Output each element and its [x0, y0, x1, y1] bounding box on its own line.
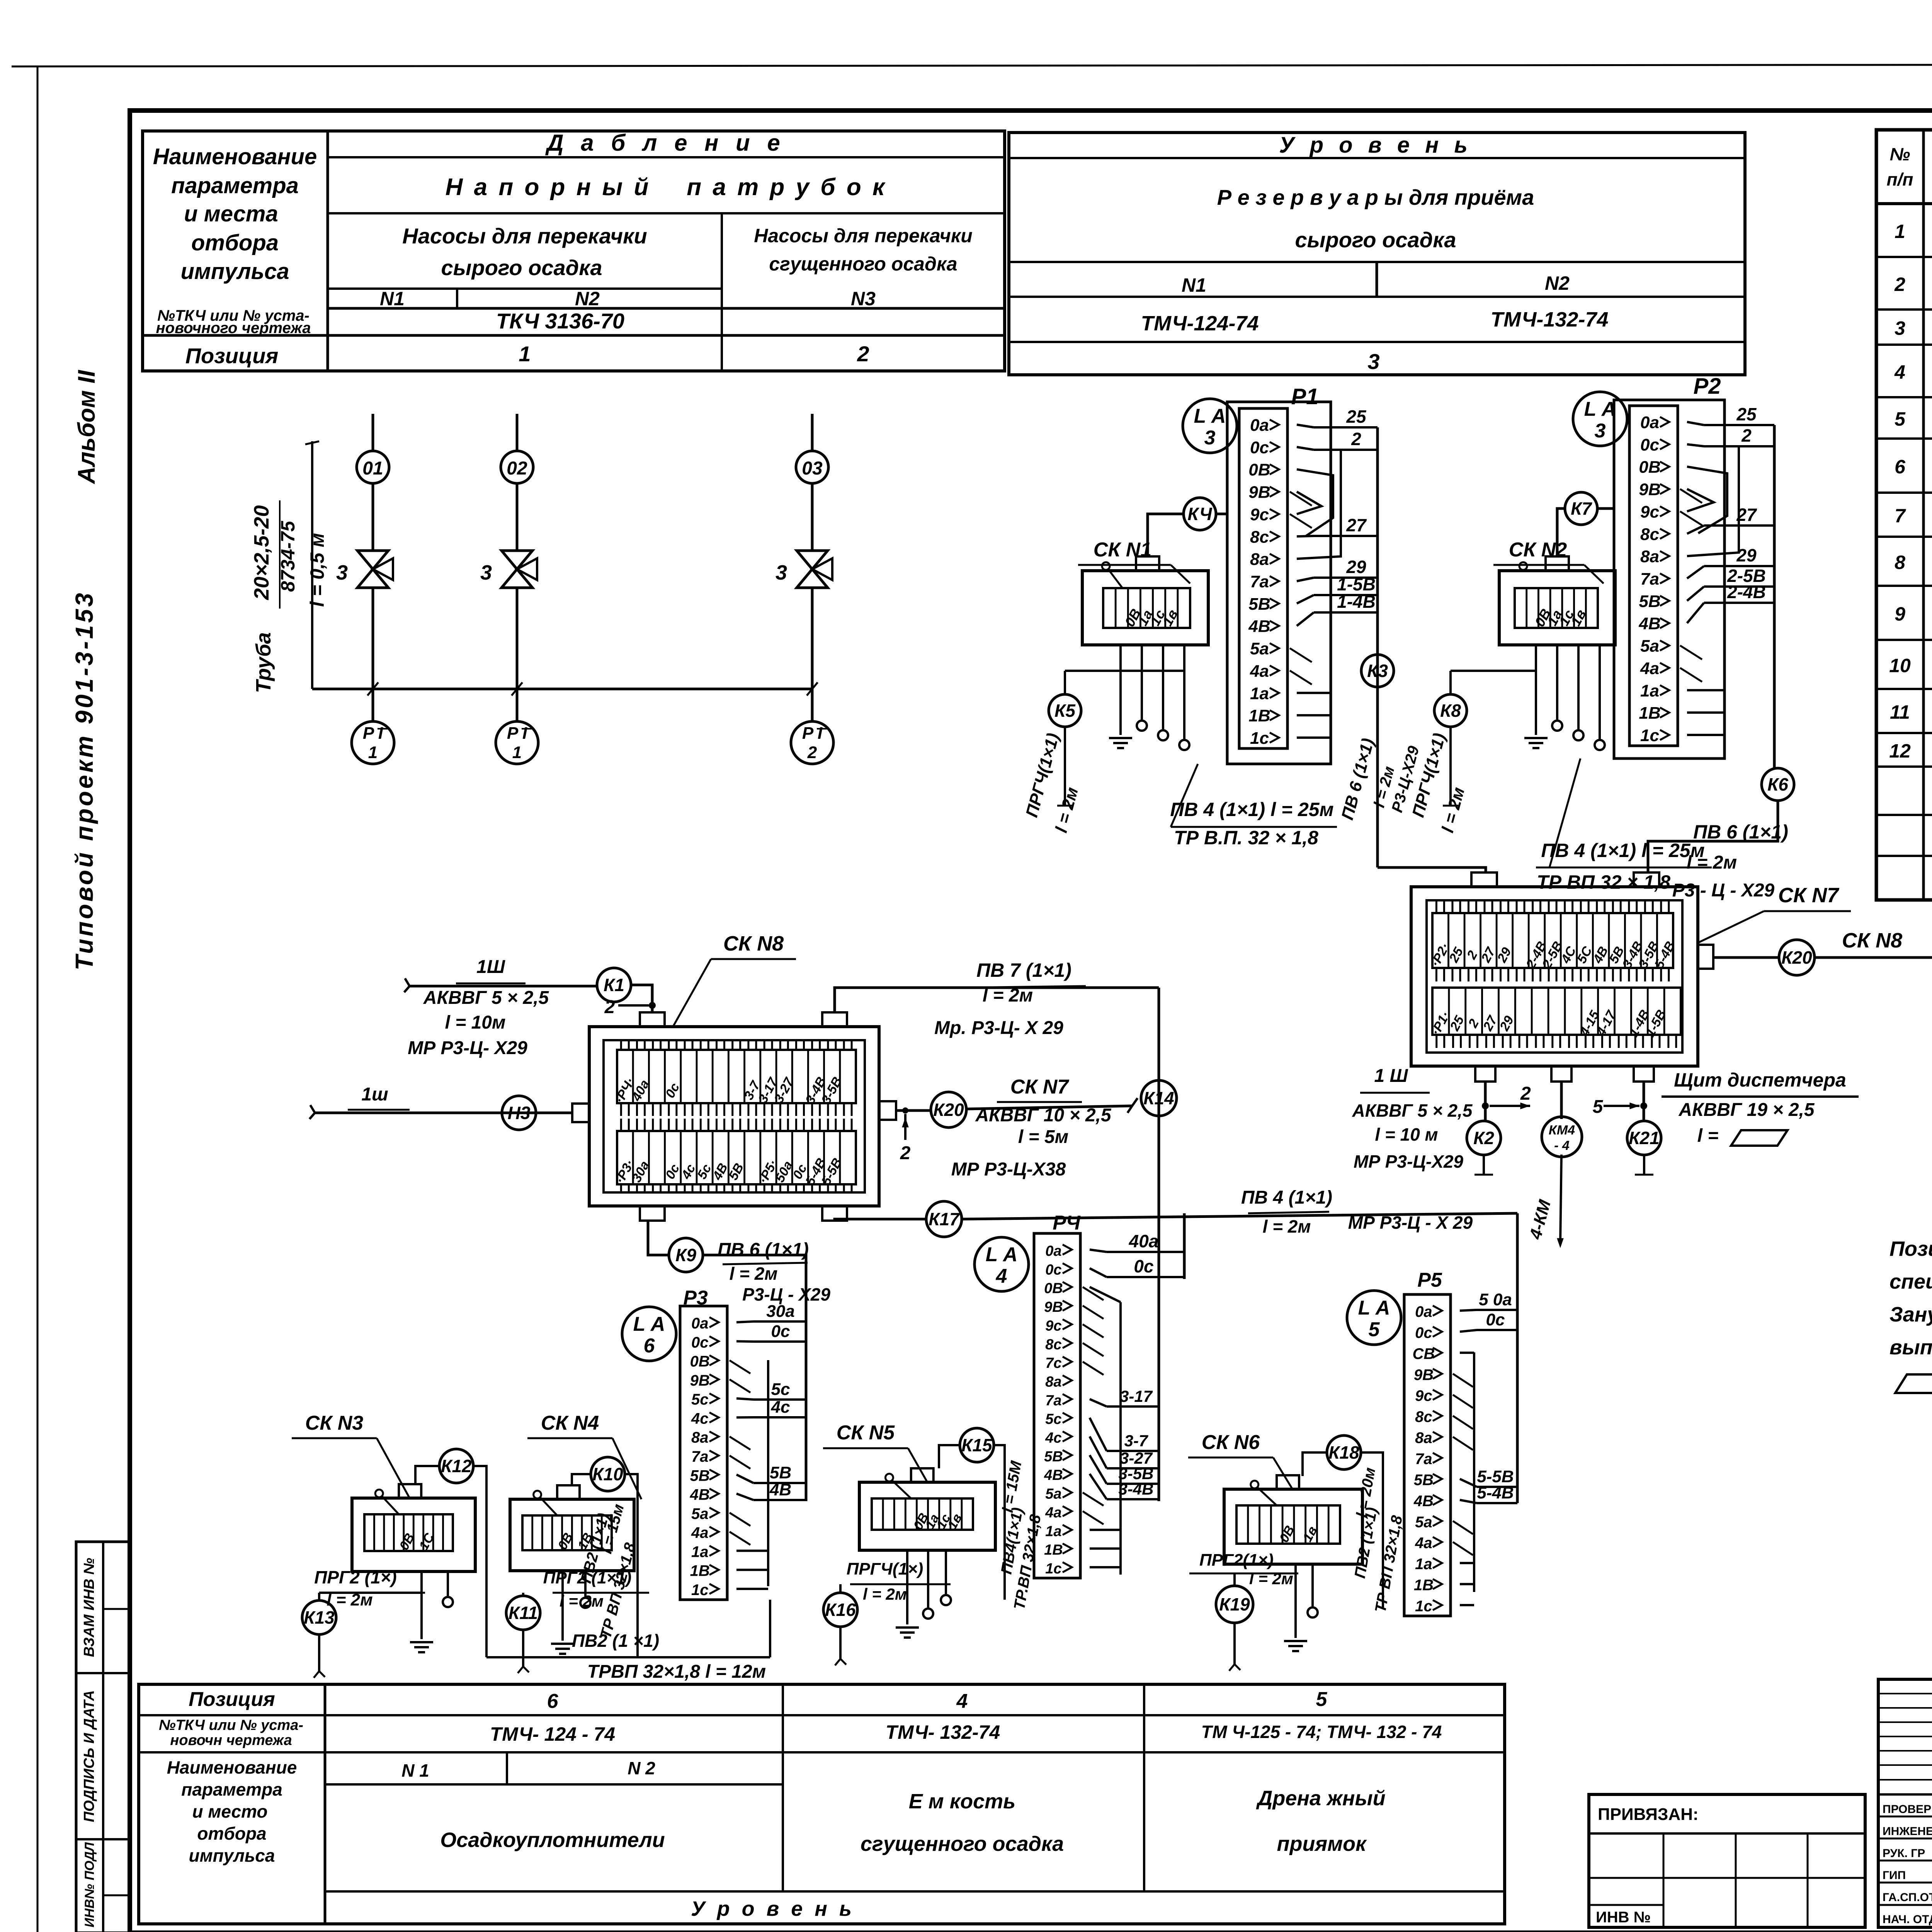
- P1 terminal strip: [1239, 408, 1287, 748]
- svg-text:8а: 8а: [1415, 1430, 1432, 1447]
- svg-text:ПРИВЯЗАН:: ПРИВЯЗАН:: [1598, 1805, 1699, 1824]
- svg-text:1ш: 1ш: [361, 1084, 388, 1105]
- svg-text:4: 4: [956, 1690, 968, 1713]
- wire K9 from CK N8 bottom: [648, 1221, 669, 1255]
- svg-text:11: 11: [1890, 701, 1910, 723]
- svg-text:1а: 1а: [691, 1543, 709, 1560]
- svg-text:12: 12: [1889, 740, 1911, 762]
- svg-text:P I: P I: [802, 724, 823, 743]
- wire P1 bus to CK N7: [1378, 867, 1486, 872]
- CK N8 strip teeth: [620, 1040, 622, 1050]
- junction circle K6: [1762, 768, 1794, 801]
- svg-text:1В: 1В: [1044, 1542, 1063, 1558]
- svg-text:6: 6: [1895, 456, 1906, 478]
- svg-text:Осадкоуплотнители: Осадкоуплотнители: [440, 1828, 665, 1852]
- svg-text:ТКЧ 3136-70: ТКЧ 3136-70: [496, 309, 624, 333]
- junction circle K19: [1216, 1586, 1253, 1623]
- svg-text:параметра: параметра: [171, 173, 299, 198]
- svg-text:0В: 0В: [1248, 461, 1270, 480]
- wire 1sh to K1 into CK N8: [410, 985, 597, 988]
- svg-text:01: 01: [362, 458, 383, 479]
- svg-text:ПРГ2(1×): ПРГ2(1×): [1199, 1551, 1274, 1570]
- svg-text:К3: К3: [1367, 661, 1388, 681]
- connection box CK N8 outer: [589, 1027, 879, 1206]
- CK N6 bottom wires: [1294, 1564, 1297, 1638]
- svg-text:ГА.СП.ОТД: ГА.СП.ОТД: [1883, 1891, 1932, 1904]
- svg-text:ВЗАМ ИНВ №: ВЗАМ ИНВ №: [81, 1558, 97, 1657]
- P3 right bus: [805, 1255, 808, 1501]
- svg-text:РЧ: РЧ: [1053, 1212, 1081, 1234]
- svg-text:0с: 0с: [1045, 1262, 1061, 1278]
- svg-text:сырого осадка: сырого осадка: [1295, 228, 1456, 252]
- svg-text:2: 2: [900, 1143, 911, 1163]
- svg-text:0а: 0а: [1415, 1303, 1432, 1320]
- svg-text:9В: 9В: [1044, 1299, 1063, 1315]
- svg-text:К7: К7: [1571, 498, 1592, 519]
- svg-text:8а: 8а: [1045, 1374, 1061, 1390]
- svg-text:l = 2м: l = 2м: [730, 1264, 778, 1284]
- svg-text:СК N7: СК N7: [1010, 1076, 1070, 1098]
- svg-text:5а: 5а: [1415, 1514, 1432, 1531]
- three-way valve 2: [502, 551, 532, 588]
- svg-text:ПВ2 (1 ×1): ПВ2 (1 ×1): [572, 1631, 659, 1651]
- svg-text:ПВ 4 (1×1) l = 25м: ПВ 4 (1×1) l = 25м: [1541, 840, 1704, 861]
- table level header: [1009, 133, 1745, 375]
- P3 terminal zigzags: [730, 1361, 750, 1374]
- svg-text:5а: 5а: [691, 1505, 709, 1522]
- wire CK N7 down to KM4: [1560, 1082, 1563, 1119]
- svg-text:2: 2: [1741, 425, 1752, 446]
- svg-text:ТМЧ- 124 - 74: ТМЧ- 124 - 74: [490, 1723, 615, 1745]
- svg-text:5-4В: 5-4В: [1477, 1483, 1514, 1502]
- svg-text:МР Р3-Ц- Х29: МР Р3-Ц- Х29: [408, 1038, 527, 1058]
- svg-text:2: 2: [1894, 274, 1905, 295]
- P4 terminal strip: [1034, 1233, 1080, 1578]
- svg-text:l =: l =: [1697, 1126, 1719, 1146]
- svg-text:Р2: Р2: [1694, 374, 1721, 399]
- P4 wires lower: [1090, 1399, 1107, 1406]
- margin stamp table: [76, 1542, 130, 1932]
- connection box CK N7 outer: [1411, 887, 1698, 1066]
- svg-text:АКВВГ 10 × 2,5: АКВВГ 10 × 2,5: [975, 1105, 1111, 1126]
- svg-text:L А: L А: [633, 1313, 665, 1335]
- wire PV7 from CK N8 top to K14 bus: [835, 988, 1159, 1012]
- P3 inner bus: [767, 1360, 769, 1586]
- svg-text:4В: 4В: [1413, 1493, 1434, 1510]
- svg-text:9с: 9с: [1045, 1318, 1061, 1334]
- svg-text:30а: 30а: [766, 1302, 794, 1321]
- svg-text:8с: 8с: [1640, 525, 1659, 544]
- wire K17 line: [835, 1219, 926, 1221]
- svg-text:СК N1: СК N1: [1094, 539, 1151, 561]
- pressure gauge circle: [791, 721, 833, 764]
- CK N8 right stubs: [879, 1101, 896, 1120]
- svg-text:АКВВГ 5 × 2,5: АКВВГ 5 × 2,5: [423, 988, 549, 1008]
- svg-text:Насосы для перекачки: Насосы для перекачки: [754, 225, 973, 247]
- svg-text:P I: P I: [363, 724, 383, 743]
- svg-text:40а: 40а: [1129, 1231, 1159, 1251]
- junction circle K3: [1361, 655, 1394, 687]
- svg-text:Альбом II: Альбом II: [73, 369, 100, 485]
- svg-text:8с: 8с: [1250, 527, 1269, 546]
- svg-text:К16: К16: [825, 1600, 856, 1620]
- svg-text:1В: 1В: [1248, 706, 1270, 725]
- svg-text:7с: 7с: [1045, 1355, 1061, 1371]
- svg-text:0с: 0с: [1640, 435, 1659, 454]
- junction circle K13: [302, 1600, 336, 1634]
- junction circle K12: [439, 1449, 473, 1483]
- svg-text:Р1: Р1: [1291, 384, 1319, 409]
- junction slash: [807, 682, 818, 696]
- svg-text:25: 25: [1346, 406, 1367, 427]
- svg-text:5с: 5с: [771, 1380, 790, 1399]
- wire CK N7 to K20 and CK N8 ref: [1713, 956, 1779, 959]
- svg-text:3: 3: [480, 561, 492, 584]
- P1 terminal zigzags: [1290, 492, 1312, 506]
- svg-text:4В: 4В: [1248, 617, 1270, 636]
- svg-text:импульса: импульса: [189, 1845, 275, 1866]
- svg-text:приямок: приямок: [1277, 1832, 1367, 1855]
- svg-text:5 0а: 5 0а: [1479, 1290, 1512, 1309]
- impulse bus line: [312, 688, 812, 690]
- connection box CK N3: [352, 1498, 475, 1571]
- P2 terminal strip: [1629, 406, 1678, 746]
- svg-text:1В: 1В: [1414, 1577, 1434, 1594]
- svg-text:СК N8: СК N8: [1842, 929, 1902, 952]
- svg-text:20×2,5-20: 20×2,5-20: [250, 505, 273, 600]
- svg-text:5с: 5с: [691, 1391, 709, 1408]
- svg-text:МР Р3-Ц - Х 29: МР Р3-Ц - Х 29: [1348, 1213, 1473, 1233]
- svg-text:СК N6: СК N6: [1202, 1431, 1260, 1454]
- svg-text:2: 2: [857, 342, 869, 366]
- bottom parameter table: [139, 1684, 1505, 1924]
- svg-text:К18: К18: [1328, 1442, 1359, 1463]
- svg-text:4а: 4а: [691, 1524, 709, 1541]
- svg-text:5В: 5В: [1248, 595, 1270, 614]
- svg-text:Р3-Ц - Х29: Р3-Ц - Х29: [742, 1284, 830, 1304]
- svg-text:№ТКЧ или № уста-: №ТКЧ или № уста-: [159, 1717, 303, 1733]
- svg-text:ТР ВП 32 × 1,8: ТР ВП 32 × 1,8: [1537, 871, 1670, 893]
- svg-text:параметра: параметра: [181, 1779, 282, 1799]
- svg-text:L А: L А: [986, 1243, 1018, 1266]
- svg-text:7а: 7а: [691, 1448, 709, 1465]
- instrument LA-5 circle: [1347, 1291, 1401, 1345]
- svg-text:ТМ Ч-125 - 74; ТМЧ- 132 - 74: ТМ Ч-125 - 74; ТМЧ- 132 - 74: [1201, 1722, 1442, 1742]
- svg-text:МР Р3-Ц-Х29: МР Р3-Ц-Х29: [1354, 1151, 1463, 1172]
- svg-text:N2: N2: [1545, 272, 1570, 294]
- svg-text:4а: 4а: [1250, 662, 1269, 680]
- svg-text:5а: 5а: [1640, 637, 1659, 656]
- junction circle K18: [1327, 1435, 1361, 1469]
- wire 1sh to H3 into CK N8: [315, 1112, 572, 1114]
- svg-text:Р е з е р в у а р ы для: Р е з е р в у а р ы для приёма: [1217, 185, 1534, 209]
- svg-text:К19: К19: [1219, 1594, 1250, 1614]
- svg-text:2: 2: [604, 997, 615, 1017]
- svg-text:N1: N1: [1182, 274, 1206, 296]
- connection box CK N1: [1082, 571, 1208, 645]
- P1 crossover wires: [1297, 469, 1333, 536]
- svg-text:К14: К14: [1143, 1088, 1174, 1108]
- pipe line branch 1: [372, 414, 374, 452]
- svg-text:Позиция: Позиция: [185, 344, 279, 368]
- svg-text:9В: 9В: [690, 1372, 710, 1389]
- CK N4 bottom wires: [561, 1571, 564, 1641]
- vertical bus to K14: [1158, 988, 1160, 1406]
- svg-text:Д а б л е н и е: Д а б л е н и е: [545, 130, 786, 156]
- svg-text:9с: 9с: [1640, 502, 1659, 521]
- title block attach box: [1589, 1794, 1865, 1927]
- svg-text:К6: К6: [1767, 774, 1788, 794]
- svg-text:К1: К1: [604, 975, 624, 995]
- svg-text:1В: 1В: [690, 1563, 710, 1580]
- svg-text:7а: 7а: [1640, 570, 1659, 588]
- P2 wires to bus: [1687, 422, 1704, 425]
- table pressure header: [143, 131, 1005, 371]
- svg-text:1Ш: 1Ш: [476, 957, 505, 977]
- svg-text:Типовой проект 901-3-153: Типовой проект 901-3-153: [70, 591, 98, 971]
- svg-text:l = 2м: l = 2м: [863, 1585, 907, 1603]
- wire valve to bus: [372, 588, 374, 689]
- CK N1 top stub: [1136, 556, 1159, 571]
- svg-text:4с: 4с: [1045, 1430, 1061, 1446]
- svg-text:1а: 1а: [1640, 681, 1659, 700]
- wire bus to gauge: [372, 689, 374, 722]
- svg-text:ТМЧ-124-74: ТМЧ-124-74: [1141, 312, 1259, 335]
- svg-text:5В: 5В: [690, 1467, 710, 1484]
- P5 wires: [1460, 1310, 1477, 1311]
- P4 terminal zigzags: [1083, 1287, 1104, 1300]
- svg-text:ПРГЧ(1×): ПРГЧ(1×): [847, 1560, 923, 1578]
- CK N2 bottom wires: [1535, 645, 1537, 735]
- svg-text:5а: 5а: [1250, 639, 1269, 658]
- CK N7 right stub: [1698, 945, 1713, 969]
- svg-text:6: 6: [547, 1690, 559, 1713]
- svg-text:1 Ш: 1 Ш: [1374, 1066, 1408, 1086]
- connection box CK N6: [1224, 1489, 1362, 1564]
- svg-text:8а: 8а: [1640, 547, 1659, 566]
- svg-text:9: 9: [1895, 603, 1905, 625]
- CK N3 bottom wires: [420, 1571, 423, 1639]
- svg-text:1с: 1с: [691, 1582, 709, 1599]
- svg-text:0В: 0В: [1044, 1281, 1063, 1297]
- svg-text:l = 5м: l = 5м: [1018, 1127, 1068, 1147]
- svg-text:К5: К5: [1054, 701, 1076, 721]
- specification table: [1876, 130, 1932, 900]
- svg-text:0с: 0с: [1415, 1324, 1432, 1341]
- svg-text:27: 27: [1346, 515, 1367, 535]
- junction circle K11: [506, 1596, 540, 1630]
- svg-text:МР Р3-Ц-Х38: МР Р3-Ц-Х38: [951, 1159, 1066, 1180]
- svg-text:выполнить согласно ПУЭ § 1-7: выполнить согласно ПУЭ § 1-7: [1889, 1336, 1932, 1359]
- svg-text:ПВ 4 (1×1) l = 25м: ПВ 4 (1×1) l = 25м: [1170, 799, 1333, 820]
- P5 right bus: [1516, 1213, 1519, 1503]
- svg-text:l = 2м: l = 2м: [1249, 1570, 1293, 1588]
- svg-text:Наименование: Наименование: [167, 1757, 297, 1777]
- P1 wires to bus: [1297, 425, 1314, 427]
- svg-text:8: 8: [1895, 552, 1905, 573]
- svg-text:1: 1: [1895, 221, 1905, 242]
- svg-text:КМ4: КМ4: [1549, 1123, 1575, 1138]
- wire K13 bracket: [319, 1592, 422, 1594]
- svg-text:СК N7: СК N7: [1778, 884, 1840, 907]
- svg-text:новочного чертежа: новочного чертежа: [156, 320, 311, 337]
- junction circle K16: [823, 1593, 857, 1627]
- junction circle K15: [960, 1428, 994, 1462]
- wire K6 to CK N7: [1648, 801, 1778, 872]
- svg-text:2: 2: [1520, 1083, 1531, 1104]
- svg-text:К13: К13: [304, 1607, 335, 1628]
- svg-text:10: 10: [1889, 655, 1911, 677]
- svg-text:Насосы для перекачки: Насосы для перекачки: [402, 224, 647, 248]
- svg-text:ТМЧ- 132-74: ТМЧ- 132-74: [886, 1721, 1000, 1743]
- svg-text:К2: К2: [1473, 1128, 1494, 1148]
- svg-text:4а: 4а: [1415, 1535, 1432, 1552]
- svg-text:1с: 1с: [1640, 726, 1659, 745]
- wire bottom run: [486, 1656, 770, 1658]
- svg-text:N2: N2: [575, 288, 600, 310]
- wire K5 link: [1065, 670, 1184, 672]
- three-way valve 3: [797, 551, 828, 588]
- svg-text:03: 03: [802, 458, 823, 479]
- P1 inner wires: [1297, 692, 1331, 694]
- svg-text:ПОДПИСЬ И ДАТА: ПОДПИСЬ И ДАТА: [81, 1690, 97, 1822]
- svg-text:0а: 0а: [691, 1315, 709, 1332]
- svg-text:6: 6: [644, 1335, 655, 1357]
- svg-text:У р о в е н ь: У р о в е н ь: [1279, 133, 1472, 158]
- svg-text:Зануление приборов и соедините: Зануление приборов и соединительных коро…: [1889, 1303, 1932, 1326]
- svg-text:1а: 1а: [1415, 1556, 1432, 1573]
- svg-text:l = 2м: l = 2м: [983, 985, 1033, 1006]
- CK N7 top terminal row: [1432, 913, 1673, 968]
- svg-text:К17: К17: [929, 1209, 960, 1229]
- CK N8 bottom stubs: [640, 1206, 665, 1221]
- svg-text:1а: 1а: [1045, 1523, 1061, 1539]
- CK N7 bottom stubs: [1475, 1066, 1495, 1082]
- svg-text:N1: N1: [380, 288, 405, 310]
- svg-text:3-7: 3-7: [1124, 1432, 1148, 1450]
- connection box CK N2: [1499, 571, 1615, 645]
- svg-text:2-4В: 2-4В: [1727, 582, 1766, 602]
- svg-text:К9: К9: [675, 1245, 696, 1265]
- svg-text:отбора: отбора: [197, 1823, 266, 1844]
- svg-text:N 2: N 2: [628, 1758, 655, 1778]
- svg-text:РУК. ГР: РУК. ГР: [1883, 1847, 1925, 1860]
- paper edge lines: [12, 64, 1932, 66]
- CK N1 bottom wires: [1119, 645, 1122, 735]
- svg-text:Н а п о р н ы й п а т р у б: Н а п о р н ы й п а т р у б о к: [446, 174, 887, 201]
- junction circle K8: [1434, 694, 1467, 727]
- svg-text:Позиции приборов соответствуют: Позиции приборов соответствуют заказной: [1889, 1237, 1932, 1260]
- svg-text:3: 3: [1367, 349, 1379, 374]
- CK N8 top stubs: [640, 1012, 665, 1027]
- svg-text:1с: 1с: [1045, 1561, 1061, 1577]
- wire CK N7 down to K2: [1484, 1082, 1487, 1122]
- svg-text:9В: 9В: [1248, 483, 1270, 502]
- svg-text:4с: 4с: [771, 1398, 790, 1417]
- svg-text:0а: 0а: [1250, 416, 1269, 435]
- CK N8 left stub: [572, 1104, 589, 1122]
- svg-text:сырого осадка: сырого осадка: [441, 255, 602, 280]
- svg-text:3: 3: [776, 561, 787, 584]
- svg-text:У р о в е н ь: У р о в е н ь: [691, 1897, 855, 1920]
- svg-text:ТР В.П. 32 × 1,8: ТР В.П. 32 × 1,8: [1174, 827, 1318, 849]
- P2 outer bracket: [1614, 400, 1725, 759]
- svg-text:4В: 4В: [769, 1480, 791, 1499]
- P2 right cable bus: [1773, 425, 1776, 768]
- svg-text:ПВ 4 (1×1): ПВ 4 (1×1): [1241, 1187, 1332, 1208]
- svg-text:8а: 8а: [1250, 550, 1269, 569]
- P1 right cable bus: [1376, 427, 1379, 867]
- svg-text:0с: 0с: [1134, 1256, 1153, 1276]
- svg-text:l = 10 м: l = 10 м: [1375, 1124, 1438, 1145]
- svg-text:сгущенного осадка: сгущенного осадка: [769, 253, 957, 275]
- svg-text:7а: 7а: [1415, 1451, 1432, 1468]
- svg-text:Р5: Р5: [1417, 1269, 1442, 1291]
- pressure gauge circle: [496, 721, 538, 764]
- svg-text:7а: 7а: [1045, 1393, 1061, 1409]
- svg-text:СВ: СВ: [1413, 1345, 1435, 1362]
- svg-text:2: 2: [1351, 429, 1361, 449]
- svg-text:8с: 8с: [1045, 1337, 1061, 1353]
- svg-text:Н3: Н3: [508, 1103, 531, 1123]
- P3 wires: [736, 1321, 753, 1322]
- svg-text:К8: К8: [1440, 701, 1461, 721]
- svg-text:и места: и места: [184, 201, 278, 226]
- svg-text:0а: 0а: [1640, 413, 1659, 432]
- instrument LA-3 circle (right): [1573, 392, 1627, 446]
- svg-text:L А: L А: [1194, 405, 1226, 427]
- svg-text:1с: 1с: [1250, 729, 1269, 748]
- svg-text:КЧ: КЧ: [1187, 504, 1213, 524]
- svg-text:L А: L А: [1584, 398, 1616, 420]
- svg-text:спецификации АТХ-С1 АТХ-С1: спецификации АТХ-С1 АТХ-С1 Альбом III: [1889, 1270, 1932, 1293]
- svg-text:1а: 1а: [1250, 684, 1269, 703]
- svg-text:l = 10м: l = 10м: [445, 1012, 506, 1033]
- svg-text:8с: 8с: [1415, 1408, 1432, 1425]
- svg-text:ПРГ2 (1×): ПРГ2 (1×): [314, 1567, 396, 1587]
- svg-text:К10: К10: [592, 1464, 623, 1484]
- svg-text:0В: 0В: [690, 1353, 710, 1370]
- wire valve to bus: [811, 588, 814, 689]
- svg-text:3: 3: [1204, 427, 1216, 449]
- svg-text:К21: К21: [1629, 1128, 1659, 1148]
- svg-text:1: 1: [368, 743, 378, 762]
- P2 inner wires: [1687, 689, 1725, 691]
- svg-text:0а: 0а: [1045, 1243, 1061, 1259]
- svg-text:9В: 9В: [1639, 480, 1660, 499]
- connection box CK N5: [859, 1482, 995, 1550]
- svg-text:Е м кость: Е м кость: [909, 1790, 1015, 1813]
- svg-text:0с: 0с: [1250, 438, 1269, 457]
- svg-text:импульса: импульса: [180, 259, 289, 284]
- svg-text:НАЧ. ОТД: НАЧ. ОТД: [1883, 1913, 1932, 1926]
- svg-text:P I: P I: [507, 724, 527, 743]
- svg-text:К11: К11: [509, 1603, 538, 1623]
- svg-text:5: 5: [1369, 1318, 1380, 1341]
- svg-text:4а: 4а: [1640, 659, 1659, 678]
- svg-text:СК N3: СК N3: [305, 1412, 364, 1434]
- svg-text:l = 2м: l = 2м: [560, 1592, 604, 1610]
- svg-text:новочн чертежа: новочн чертежа: [170, 1732, 292, 1748]
- P5 terminal zigzags: [1453, 1374, 1473, 1387]
- svg-text:0В: 0В: [1639, 458, 1660, 477]
- svg-text:1: 1: [519, 342, 531, 366]
- svg-text:1В: 1В: [1639, 704, 1660, 723]
- CK N2 top stub: [1546, 556, 1569, 571]
- wire bus to gauge: [516, 689, 519, 722]
- svg-text:отбора: отбора: [191, 230, 279, 255]
- junction circle K7: [1565, 492, 1597, 525]
